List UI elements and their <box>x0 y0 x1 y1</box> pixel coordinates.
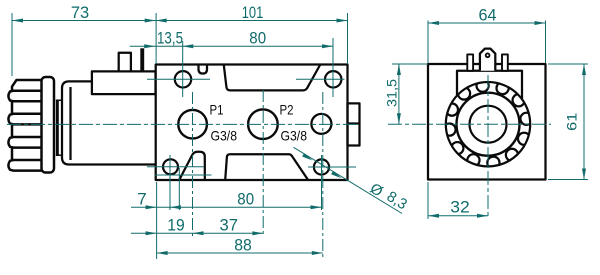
centerline bottom-left hole horizontal <box>147 166 204 168</box>
svg-text:31,5: 31,5 <box>385 79 400 107</box>
arrow 73 right <box>145 19 156 23</box>
connector block on solenoid <box>92 71 156 94</box>
svg-text:88: 88 <box>234 236 252 255</box>
extension/centerline top-left hole vertical <box>182 41 184 97</box>
right view: top extension for 31,5 <box>392 63 428 65</box>
middle circle <box>457 93 520 156</box>
extension 61 top <box>548 63 588 65</box>
arrow 61 top <box>582 64 586 75</box>
arrow 64 left <box>428 21 439 25</box>
leader line diameter 8,3 <box>294 147 403 213</box>
extension line 101 right <box>347 13 349 64</box>
connector center pin filled <box>140 48 144 71</box>
arrow 32 right <box>477 214 488 218</box>
arrow 7 left outside <box>146 205 157 209</box>
outer knurl circle <box>446 82 530 166</box>
svg-text:P1: P1 <box>210 102 224 118</box>
arrow 19/37 shared <box>193 231 204 235</box>
arrow leader 8,3 upper <box>302 153 312 160</box>
svg-text:P2: P2 <box>280 102 294 118</box>
centerline P1 vertical <box>192 92 194 236</box>
dimension line 64 <box>428 22 546 24</box>
right view ground tab <box>480 49 495 71</box>
svg-text:64: 64 <box>479 6 497 25</box>
right view square body <box>428 64 546 180</box>
dimension line 73 / 101 <box>12 20 348 22</box>
arrow 31,5 bottom <box>397 113 401 124</box>
extension bottom-right hole vertical <box>321 155 323 210</box>
right view prong left <box>467 54 473 70</box>
main axis centerline <box>7 123 357 125</box>
centerline bottom-right hole horizontal <box>308 166 356 168</box>
knurled wheel front view <box>443 80 532 169</box>
knurl crescent bumps <box>443 80 532 169</box>
third circle right <box>311 114 331 134</box>
arrow 101 right <box>337 19 348 23</box>
solenoid inner seam line <box>69 87 71 160</box>
inner bore circle <box>470 106 507 143</box>
ground tab hole <box>486 53 490 57</box>
arrow 80 top right <box>322 44 333 48</box>
svg-text:101: 101 <box>242 3 264 22</box>
wheel white disk <box>446 82 530 166</box>
extension line at block left edge top <box>155 13 157 64</box>
knob rib 1 <box>8 91 44 102</box>
connector prong left view <box>119 53 131 72</box>
centerline top-right hole vertical <box>332 38 334 97</box>
arrow 64 right <box>535 21 546 25</box>
port P1 circle <box>178 110 207 139</box>
extension block left edge bottom <box>156 182 158 259</box>
arrow 31,5 top <box>397 64 401 75</box>
right view: horizontal centerline <box>388 123 551 125</box>
arrow 80 bottom right <box>311 205 322 209</box>
dimension line 32 <box>428 215 488 217</box>
arrow 101 left <box>156 19 167 23</box>
short extension line x176 <box>178 168 180 210</box>
arrow 73 left <box>12 19 23 23</box>
dimension line 13,5 / 80 top <box>130 45 333 47</box>
arrow 61 bottom <box>582 169 586 180</box>
top pocket <box>224 65 321 91</box>
dimension line 61 <box>583 64 585 180</box>
top U-notch <box>199 65 208 74</box>
washer bottom edge <box>56 154 62 156</box>
bottom ramp <box>179 152 205 180</box>
arrow 88 left <box>157 251 168 255</box>
arrow 19 left outside <box>146 231 157 235</box>
extension bottom-left hole vertical <box>169 155 171 210</box>
svg-text:73: 73 <box>71 3 89 22</box>
svg-text:37: 37 <box>220 216 239 235</box>
right view: vertical centerline <box>487 75 489 219</box>
knob front rim <box>42 77 55 173</box>
dimension line 19 / 37 <box>131 232 263 234</box>
arrow leader 8,3 lower <box>331 171 341 178</box>
corner hole bottom-right <box>314 159 329 174</box>
svg-text:7: 7 <box>137 190 146 209</box>
corner hole top-left <box>175 71 191 87</box>
dimension line 7 / 80 bottom <box>131 206 322 208</box>
knob rib 4 <box>8 160 44 171</box>
centerline P2 vertical <box>262 90 264 236</box>
right view prong right <box>502 54 508 70</box>
centerline top-right hole horizontal <box>296 78 345 80</box>
knob rib 2 <box>8 114 44 125</box>
washer top edge <box>56 99 62 101</box>
bottom pocket <box>225 154 308 180</box>
solenoid body <box>62 81 156 164</box>
svg-text:32: 32 <box>450 198 470 217</box>
extension 32 left <box>427 182 429 219</box>
arrow 13,5/80 shared <box>182 44 193 48</box>
arrow 32 left <box>428 214 439 218</box>
arrow 7 right outside <box>170 205 181 209</box>
dimension line 88 <box>157 252 323 254</box>
arrow 88 right <box>312 251 323 255</box>
dimension line 31,5 vertical <box>398 64 400 124</box>
svg-text:G3/8: G3/8 <box>211 128 238 144</box>
svg-text:80: 80 <box>249 29 266 48</box>
svg-text:61: 61 <box>565 112 580 131</box>
corner hole bottom-left <box>163 159 178 174</box>
side tab mid line <box>348 122 360 124</box>
arrow 37 right <box>252 231 263 235</box>
centerline top-left hole horizontal <box>147 78 210 80</box>
knob neck washer disc <box>56 100 59 157</box>
svg-text:G3/8: G3/8 <box>281 128 308 144</box>
port P2 circle <box>248 109 278 139</box>
right view connector box <box>457 71 522 100</box>
knob body outline <box>12 80 43 169</box>
centerline third circle vertical <box>322 92 324 258</box>
knob rib 3 <box>8 137 44 148</box>
side tab on block right edge <box>348 103 360 145</box>
svg-text:19: 19 <box>167 216 185 235</box>
extension 64 left <box>427 21 429 64</box>
extension line left of knob for dim 73 <box>11 13 13 76</box>
svg-text:13,5: 13,5 <box>157 29 183 48</box>
corner hole top-right <box>325 71 341 87</box>
arrow 13,5 left outside <box>144 44 155 48</box>
svg-text:80: 80 <box>237 190 254 209</box>
extension 61 bottom <box>548 179 588 181</box>
extension 64 right <box>545 21 547 64</box>
valve block body <box>156 65 348 181</box>
extra horizontal reference line bottom-left <box>155 174 212 176</box>
